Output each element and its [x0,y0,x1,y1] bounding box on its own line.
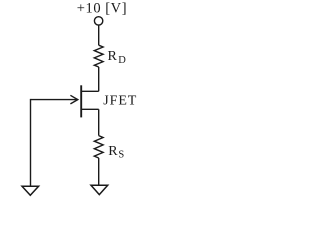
ground (left) [22,186,39,195]
svg-text:R: R [108,144,118,159]
channel bar [80,85,82,117]
resistor R_D [94,45,103,67]
label R_S [108,144,124,161]
wire: JFET source down to R_S top [98,109,100,135]
wire: terminal to R_D top [98,25,100,45]
gate wire with arrowhead [31,99,78,101]
svg-text:+10 [V]: +10 [V] [77,1,127,17]
svg-text:D: D [118,55,126,66]
ground (right) [91,185,108,194]
supply terminal circle [94,17,102,25]
resistor R_S [94,136,103,158]
wire: R_S bottom to right ground [98,158,100,185]
transistor JFET [31,85,99,117]
svg-text:R: R [108,49,118,64]
svg-text:JFET: JFET [103,94,137,109]
drain lead [81,90,99,92]
source lead [81,108,99,110]
wire: R_D bottom to JFET drain [98,67,100,91]
label R_D [108,49,127,66]
svg-text:S: S [118,150,124,161]
wire: gate down to left ground [30,99,32,186]
